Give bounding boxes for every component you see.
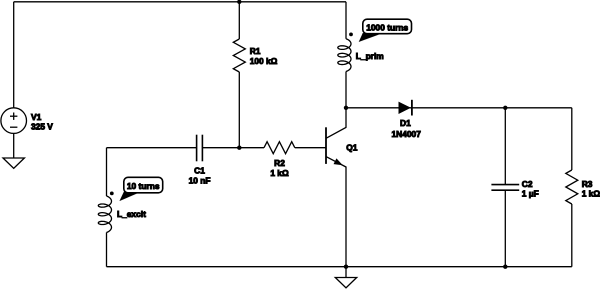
svg-text:R2: R2 [274, 158, 285, 168]
svg-text:1 kΩ: 1 kΩ [582, 189, 600, 199]
svg-text:1 kΩ: 1 kΩ [270, 168, 289, 178]
svg-text:R1: R1 [250, 46, 261, 56]
svg-text:1 µF: 1 µF [522, 189, 539, 199]
svg-text:10 nF: 10 nF [189, 175, 211, 185]
svg-text:Q1: Q1 [346, 142, 358, 152]
svg-text:L_excit: L_excit [117, 209, 146, 219]
svg-text:100 kΩ: 100 kΩ [250, 56, 278, 66]
svg-text:D1: D1 [400, 118, 411, 128]
svg-text:10 turns: 10 turns [127, 181, 160, 191]
svg-text:1000 turns: 1000 turns [366, 22, 408, 32]
svg-text:C2: C2 [522, 179, 533, 189]
svg-text:V1: V1 [31, 112, 42, 122]
svg-text:R3: R3 [582, 179, 593, 189]
svg-text:325 V: 325 V [31, 122, 53, 132]
svg-text:1N4007: 1N4007 [392, 129, 422, 139]
svg-text:L_prim: L_prim [356, 51, 384, 61]
svg-text:C1: C1 [194, 165, 205, 175]
